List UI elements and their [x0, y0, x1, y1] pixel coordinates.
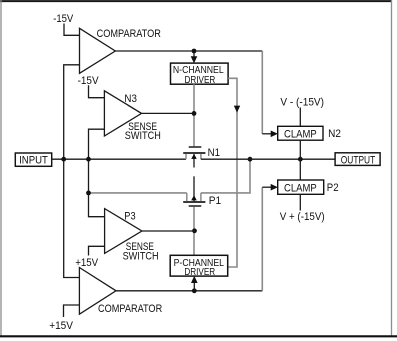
arrow into clamp N2: [271, 131, 278, 138]
wire N-driver bottom to N1 gate: [193, 84, 195, 146]
wire comparator U1 output to N-driver and clamp branch: [115, 51, 271, 134]
wire +15V to comparator U2 -input: [64, 305, 80, 317]
node P1 stub branch: [86, 191, 91, 196]
node input/sense branch: [86, 157, 91, 162]
node output riser junction: [248, 157, 253, 162]
node input/comparators branch: [61, 157, 66, 162]
svg-text:INPUT: INPUT: [19, 154, 48, 166]
svg-text:COMPARATOR: COMPARATOR: [97, 28, 161, 40]
comparator U1 (top): [80, 28, 116, 73]
svg-text:N1: N1: [208, 147, 220, 159]
arrow into clamp P2: [271, 184, 278, 191]
wire input branch to comparator U1 -input and comparator U2 +input: [64, 65, 80, 278]
wire P3 output to P1 gate: [142, 230, 195, 232]
svg-text:OUTPUT: OUTPUT: [341, 155, 376, 167]
wire arrow into P-channel driver bottom: [191, 276, 198, 291]
wire arrow into N-channel driver top: [191, 51, 198, 63]
svg-text:DRIVER: DRIVER: [185, 74, 216, 86]
transistor P1: [183, 176, 205, 206]
wire N3 -input branch from input line down to P3 +input: [89, 129, 105, 217]
svg-text:N3: N3: [124, 93, 136, 105]
P-channel driver box: [170, 255, 228, 278]
svg-text:COMPARATOR: COMPARATOR: [98, 303, 162, 315]
node comparator2 output junction: [192, 288, 197, 293]
svg-text:N2: N2: [328, 128, 341, 140]
comparator U2 (bottom): [79, 268, 116, 315]
wire +15V to P3 -input: [89, 246, 105, 255]
wire P1 gate to P-driver: [193, 207, 195, 256]
svg-text:DRIVER: DRIVER: [184, 266, 215, 278]
wire main input line: [52, 158, 186, 160]
node comparator1 output junction: [192, 49, 197, 54]
transistor N1: [183, 146, 205, 167]
wire clamp P2 bottom to V+ label: [299, 194, 301, 210]
svg-text:+15V: +15V: [75, 257, 98, 269]
wire P1 source stub left: [89, 192, 187, 194]
svg-text:P1: P1: [209, 195, 221, 207]
svg-text:P3: P3: [124, 210, 135, 222]
N-channel driver box: [171, 63, 229, 86]
clamp P2 box: [278, 180, 324, 194]
sense switch P3: [105, 209, 142, 254]
node clamp junction on output: [298, 157, 303, 162]
svg-text:V - (-15V): V - (-15V): [280, 97, 324, 109]
wire N3 output to N1 gate: [142, 112, 195, 114]
sense switch N3: [104, 91, 141, 136]
svg-text:P2: P2: [327, 182, 339, 194]
wire main output line: [201, 158, 335, 160]
wire comparator U2 output to clamp P2 riser: [116, 187, 272, 291]
wire clamp N2 to output line: [299, 140, 301, 180]
label SENSE SWITCH (N3): [125, 121, 161, 142]
svg-text:CLAMP: CLAMP: [284, 128, 317, 140]
wire P1 source stub right riser to output: [201, 159, 250, 193]
svg-text:V + (-15V): V + (-15V): [280, 211, 325, 223]
wire -15V to N3 +input: [89, 85, 105, 98]
node N1 gate junction: [192, 111, 197, 116]
INPUT box: [15, 153, 51, 166]
svg-text:-15V: -15V: [78, 75, 100, 87]
svg-text:CLAMP: CLAMP: [284, 182, 317, 194]
node P1 gate junction: [192, 228, 197, 233]
svg-text:-15V: -15V: [53, 13, 74, 25]
wire N-driver right output down to P-driver: [228, 78, 241, 267]
wire V- to clamp N2: [299, 108, 301, 127]
svg-text:+15V: +15V: [49, 320, 73, 332]
wire -15V to comparator U1 +input: [64, 24, 80, 36]
svg-text:SWITCH: SWITCH: [125, 130, 161, 142]
label SENSE SWITCH (P3): [123, 241, 159, 263]
clamp N2 box: [278, 126, 323, 140]
svg-text:SWITCH: SWITCH: [123, 251, 159, 263]
OUTPUT box: [335, 153, 380, 167]
